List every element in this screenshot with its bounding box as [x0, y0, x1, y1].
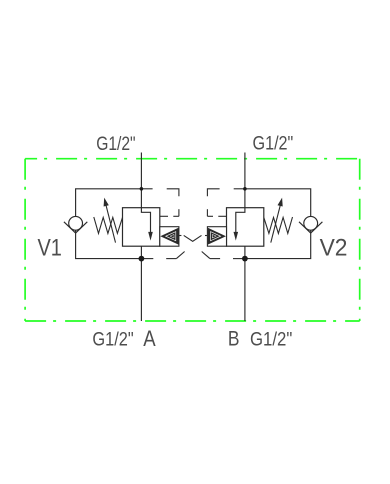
- svg-text:V1: V1: [38, 234, 62, 261]
- svg-text:G1/2": G1/2": [96, 134, 135, 155]
- svg-text:G1/2": G1/2": [250, 329, 292, 350]
- svg-text:V2: V2: [320, 234, 348, 261]
- svg-text:B: B: [228, 328, 240, 351]
- svg-text:G1/2": G1/2": [253, 134, 294, 155]
- svg-text:G1/2": G1/2": [92, 329, 133, 350]
- svg-text:A: A: [143, 326, 156, 351]
